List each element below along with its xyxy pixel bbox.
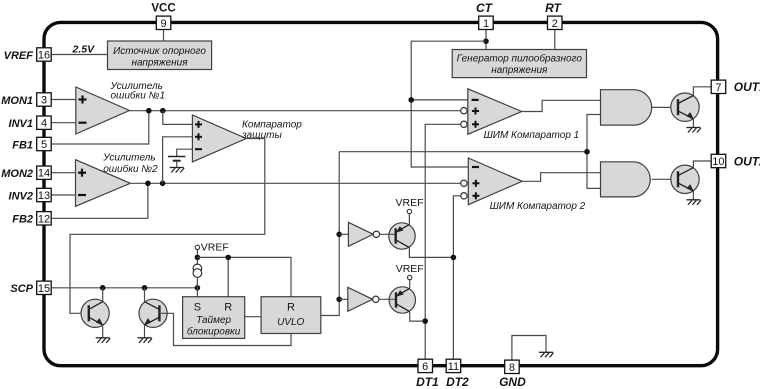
svg-text:OUT2: OUT2 [734, 154, 760, 168]
svg-text:VREF: VREF [395, 197, 423, 209]
AND gate 1 [601, 90, 652, 125]
ground under Q1 [686, 128, 701, 133]
node CT sawtooth tap [483, 38, 489, 44]
svg-text:MON2: MON2 [1, 168, 33, 180]
node T1 collector on SCP [100, 285, 106, 291]
node SCP current source junction [195, 285, 201, 291]
wire timer to UVLO [245, 316, 261, 318]
node timer R tap [225, 255, 231, 261]
block: reference voltage source (Источник опорного напряжения) [108, 41, 212, 70]
svg-text:R: R [224, 302, 232, 314]
svg-text:DT1: DT1 [416, 375, 439, 389]
svg-text:INV2: INV2 [9, 190, 33, 202]
input bubble comparator2 + (deadtime) [461, 193, 467, 199]
svg-text:DT2: DT2 [446, 375, 469, 389]
pin 9 VCC [151, 3, 175, 30]
node Q4 to DT1 junction [422, 318, 428, 324]
pin 5 FB1 [12, 137, 51, 151]
svg-text:ошибки №1: ошибки №1 [111, 89, 166, 101]
wire MON1 pin3 to error amp 1 + input [51, 99, 76, 101]
pin 4 INV1 [9, 116, 52, 130]
pin 14 MON2 [1, 166, 51, 180]
svg-text:OUT1: OUT1 [734, 80, 760, 94]
svg-text:защиты: защиты [241, 130, 283, 141]
transistor Q1 output OUT1 [671, 87, 711, 128]
pin 12 FB2 [12, 212, 51, 226]
svg-text:INV1: INV1 [9, 118, 33, 130]
pin 11 DT2 [446, 359, 469, 389]
wire MON2 pin14 to error amp 2 + input [51, 172, 75, 174]
node VREF junction [195, 255, 201, 261]
ground under reference cell [170, 168, 185, 173]
ground at GND pin [539, 352, 554, 357]
svg-text:Усилитель: Усилитель [102, 153, 155, 164]
svg-text:16: 16 [38, 50, 50, 62]
svg-text:11: 11 [448, 361, 459, 373]
wire GND pin8 to ground [512, 336, 546, 360]
svg-text:Генератор пилообразного: Генератор пилообразного [457, 53, 583, 65]
svg-text:2.5V: 2.5V [72, 43, 96, 55]
wire INV1 pin4 to error amp 1 - input [51, 122, 76, 124]
transistor Q4 (to VREF, deadtime 1) [379, 280, 415, 313]
svg-text:2: 2 [552, 18, 558, 30]
wire AND2 output to transistor Q2 [652, 178, 671, 180]
wire RT pin2 down to generator [554, 29, 556, 49]
pin 8 GND [499, 360, 526, 389]
inverter 1 [339, 222, 379, 246]
node Q3 to DT2 junction [451, 255, 457, 261]
svg-text:Таймер: Таймер [196, 315, 231, 326]
svg-text:S: S [194, 302, 201, 314]
svg-text:8: 8 [509, 362, 515, 374]
pin 15 SCP [10, 281, 51, 295]
svg-text:12: 12 [38, 213, 50, 225]
wire error amp 2 output to PWM comparator 2 [130, 182, 460, 184]
AND gate 2 [601, 162, 651, 197]
svg-text:SCP: SCP [10, 283, 33, 295]
wire VCC pin9 down to reference box [163, 30, 165, 42]
svg-text:Источник опорного: Источник опорного [113, 46, 206, 57]
svg-text:9: 9 [160, 18, 166, 30]
wire Q3 emitter to DT2 line [409, 248, 453, 258]
current source symbol [193, 264, 202, 277]
pin 10 OUT2 [711, 154, 760, 168]
wire FB1 pin5 feedback to error amp 1 output [51, 111, 149, 144]
comparator PWM 1 (ШИМ Компаратор 1) [468, 89, 579, 141]
pin 13 INV2 [9, 188, 52, 202]
wire sawtooth to PWM comparators - inputs [411, 41, 486, 167]
wire SCP pin15 line [51, 287, 197, 289]
svg-text:10: 10 [712, 156, 724, 168]
terminal VREF above current source [195, 242, 229, 254]
wire blanking common line to AND gates [339, 115, 600, 189]
svg-text:CT: CT [476, 1, 494, 15]
ground under Q2 [686, 200, 701, 205]
svg-text:ошибки №2: ошибки №2 [103, 163, 158, 175]
wire T2 base to UVLO bottom [159, 313, 291, 345]
wire to protection comparator input 2 [163, 137, 193, 184]
op-amp error amplifier 1 (Усилитель ошибки №1) [76, 81, 165, 134]
node FB1 junction [146, 108, 152, 114]
block: sawtooth generator (Генератор пилообразного напряжения) [452, 50, 586, 78]
pin 16 VREF [4, 48, 52, 62]
input bubble comparator1 + (deadtime) [461, 121, 467, 127]
pin 2 RT [545, 1, 562, 30]
block: UVLO [261, 297, 321, 334]
svg-text:5: 5 [41, 139, 47, 151]
ground under T2 [138, 338, 153, 343]
node FB2 junction [145, 181, 151, 187]
node inverter 1 tap [336, 232, 342, 238]
node AND common junction [584, 149, 590, 155]
reference cell on protection comparator - input [168, 149, 192, 167]
transistor T1 (SCP discharge) [81, 288, 109, 338]
svg-text:FB2: FB2 [12, 214, 33, 226]
svg-text:GND: GND [499, 375, 526, 389]
svg-text:блокировки: блокировки [187, 326, 241, 338]
wire comparator 2 output to AND gate 2 [522, 173, 600, 182]
wire protection comparator output to transistor T1 base [70, 139, 265, 314]
svg-text:напряжения: напряжения [491, 65, 548, 76]
node error amp2 output junction [160, 181, 166, 187]
wire error amp 1 output to PWM comparator 1 [130, 110, 461, 112]
svg-text:ШИМ Компаратор 1: ШИМ Компаратор 1 [484, 130, 580, 141]
node inverter 2 tap [336, 297, 342, 303]
svg-text:MON1: MON1 [1, 95, 33, 107]
svg-text:VREF: VREF [4, 50, 34, 62]
svg-text:15: 15 [38, 283, 50, 295]
comparator PWM 2 (ШИМ Компаратор 2) [468, 158, 585, 212]
wire VREF line to timer R and UVLO R [197, 257, 291, 296]
input bubble comparator2 + (error amp) [461, 180, 467, 186]
wire UVLO output up to common line [321, 152, 339, 316]
svg-text:6: 6 [422, 361, 428, 373]
node T2 collector on SCP [142, 285, 148, 291]
wire comparator 1 output to AND gate 1 [522, 100, 601, 111]
svg-text:UVLO: UVLO [277, 317, 304, 328]
svg-text:ШИМ Компаратор 2: ШИМ Компаратор 2 [490, 201, 586, 212]
svg-text:VREF: VREF [396, 263, 424, 275]
wire VREF pin16 to reference box with 2.5V label [51, 43, 107, 55]
wire FB2 pin12 feedback to error amp 2 output [51, 183, 148, 218]
svg-text:7: 7 [715, 82, 721, 94]
svg-text:FB1: FB1 [12, 139, 33, 151]
svg-text:13: 13 [38, 190, 50, 202]
svg-text:3: 3 [41, 95, 47, 107]
wire DT2 pin11 to comparator 2 [453, 196, 460, 359]
op-amp error amplifier 2 (Усилитель ошибки №2) [76, 153, 159, 207]
wire INV2 pin13 to error amp 2 - input [51, 194, 75, 196]
pin 7 OUT1 [711, 80, 760, 94]
svg-text:1: 1 [483, 18, 489, 30]
wire CT pin1 down to generator [485, 29, 487, 49]
svg-text:VREF: VREF [201, 242, 229, 254]
pin 3 MON1 [1, 93, 51, 107]
inverter 2 [339, 287, 379, 311]
wire to protection comparator input 1 [163, 111, 193, 125]
svg-text:VCC: VCC [151, 3, 175, 15]
svg-text:14: 14 [38, 168, 50, 180]
node sawtooth junction at comparator 1 [408, 97, 414, 103]
node error amp1 output junction [160, 108, 166, 114]
svg-text:4: 4 [41, 118, 47, 130]
wire AND1 output to transistor Q1 [652, 106, 671, 108]
IC body border [44, 22, 718, 365]
transistor T2 (UVLO discharge, mirrored) [139, 288, 167, 338]
pin 1 CT [476, 1, 494, 30]
ground under T1 [96, 338, 111, 343]
transistor Q3 (to VREF, deadtime 2) [380, 214, 416, 250]
transistor Q2 output OUT2 [671, 161, 711, 200]
terminal VREF for Q3 [395, 197, 423, 214]
wire current source to SCP line and S input [196, 277, 198, 296]
block: lockout timer (Таймер блокировки) [183, 297, 245, 339]
wire VREF node down [196, 250, 198, 265]
comparator protection (Компаратор защиты) [192, 115, 302, 162]
wire Q4 emitter to DT1 line [410, 312, 426, 322]
input bubble comparator1 + (error amp) [461, 108, 467, 114]
terminal VREF for Q4 [396, 263, 424, 280]
wire DT1 pin6 to comparator 1 [425, 124, 461, 359]
svg-text:R: R [287, 302, 295, 314]
svg-text:напряжения: напряжения [131, 58, 188, 69]
svg-text:RT: RT [545, 1, 562, 15]
pin 6 DT1 [416, 359, 439, 389]
